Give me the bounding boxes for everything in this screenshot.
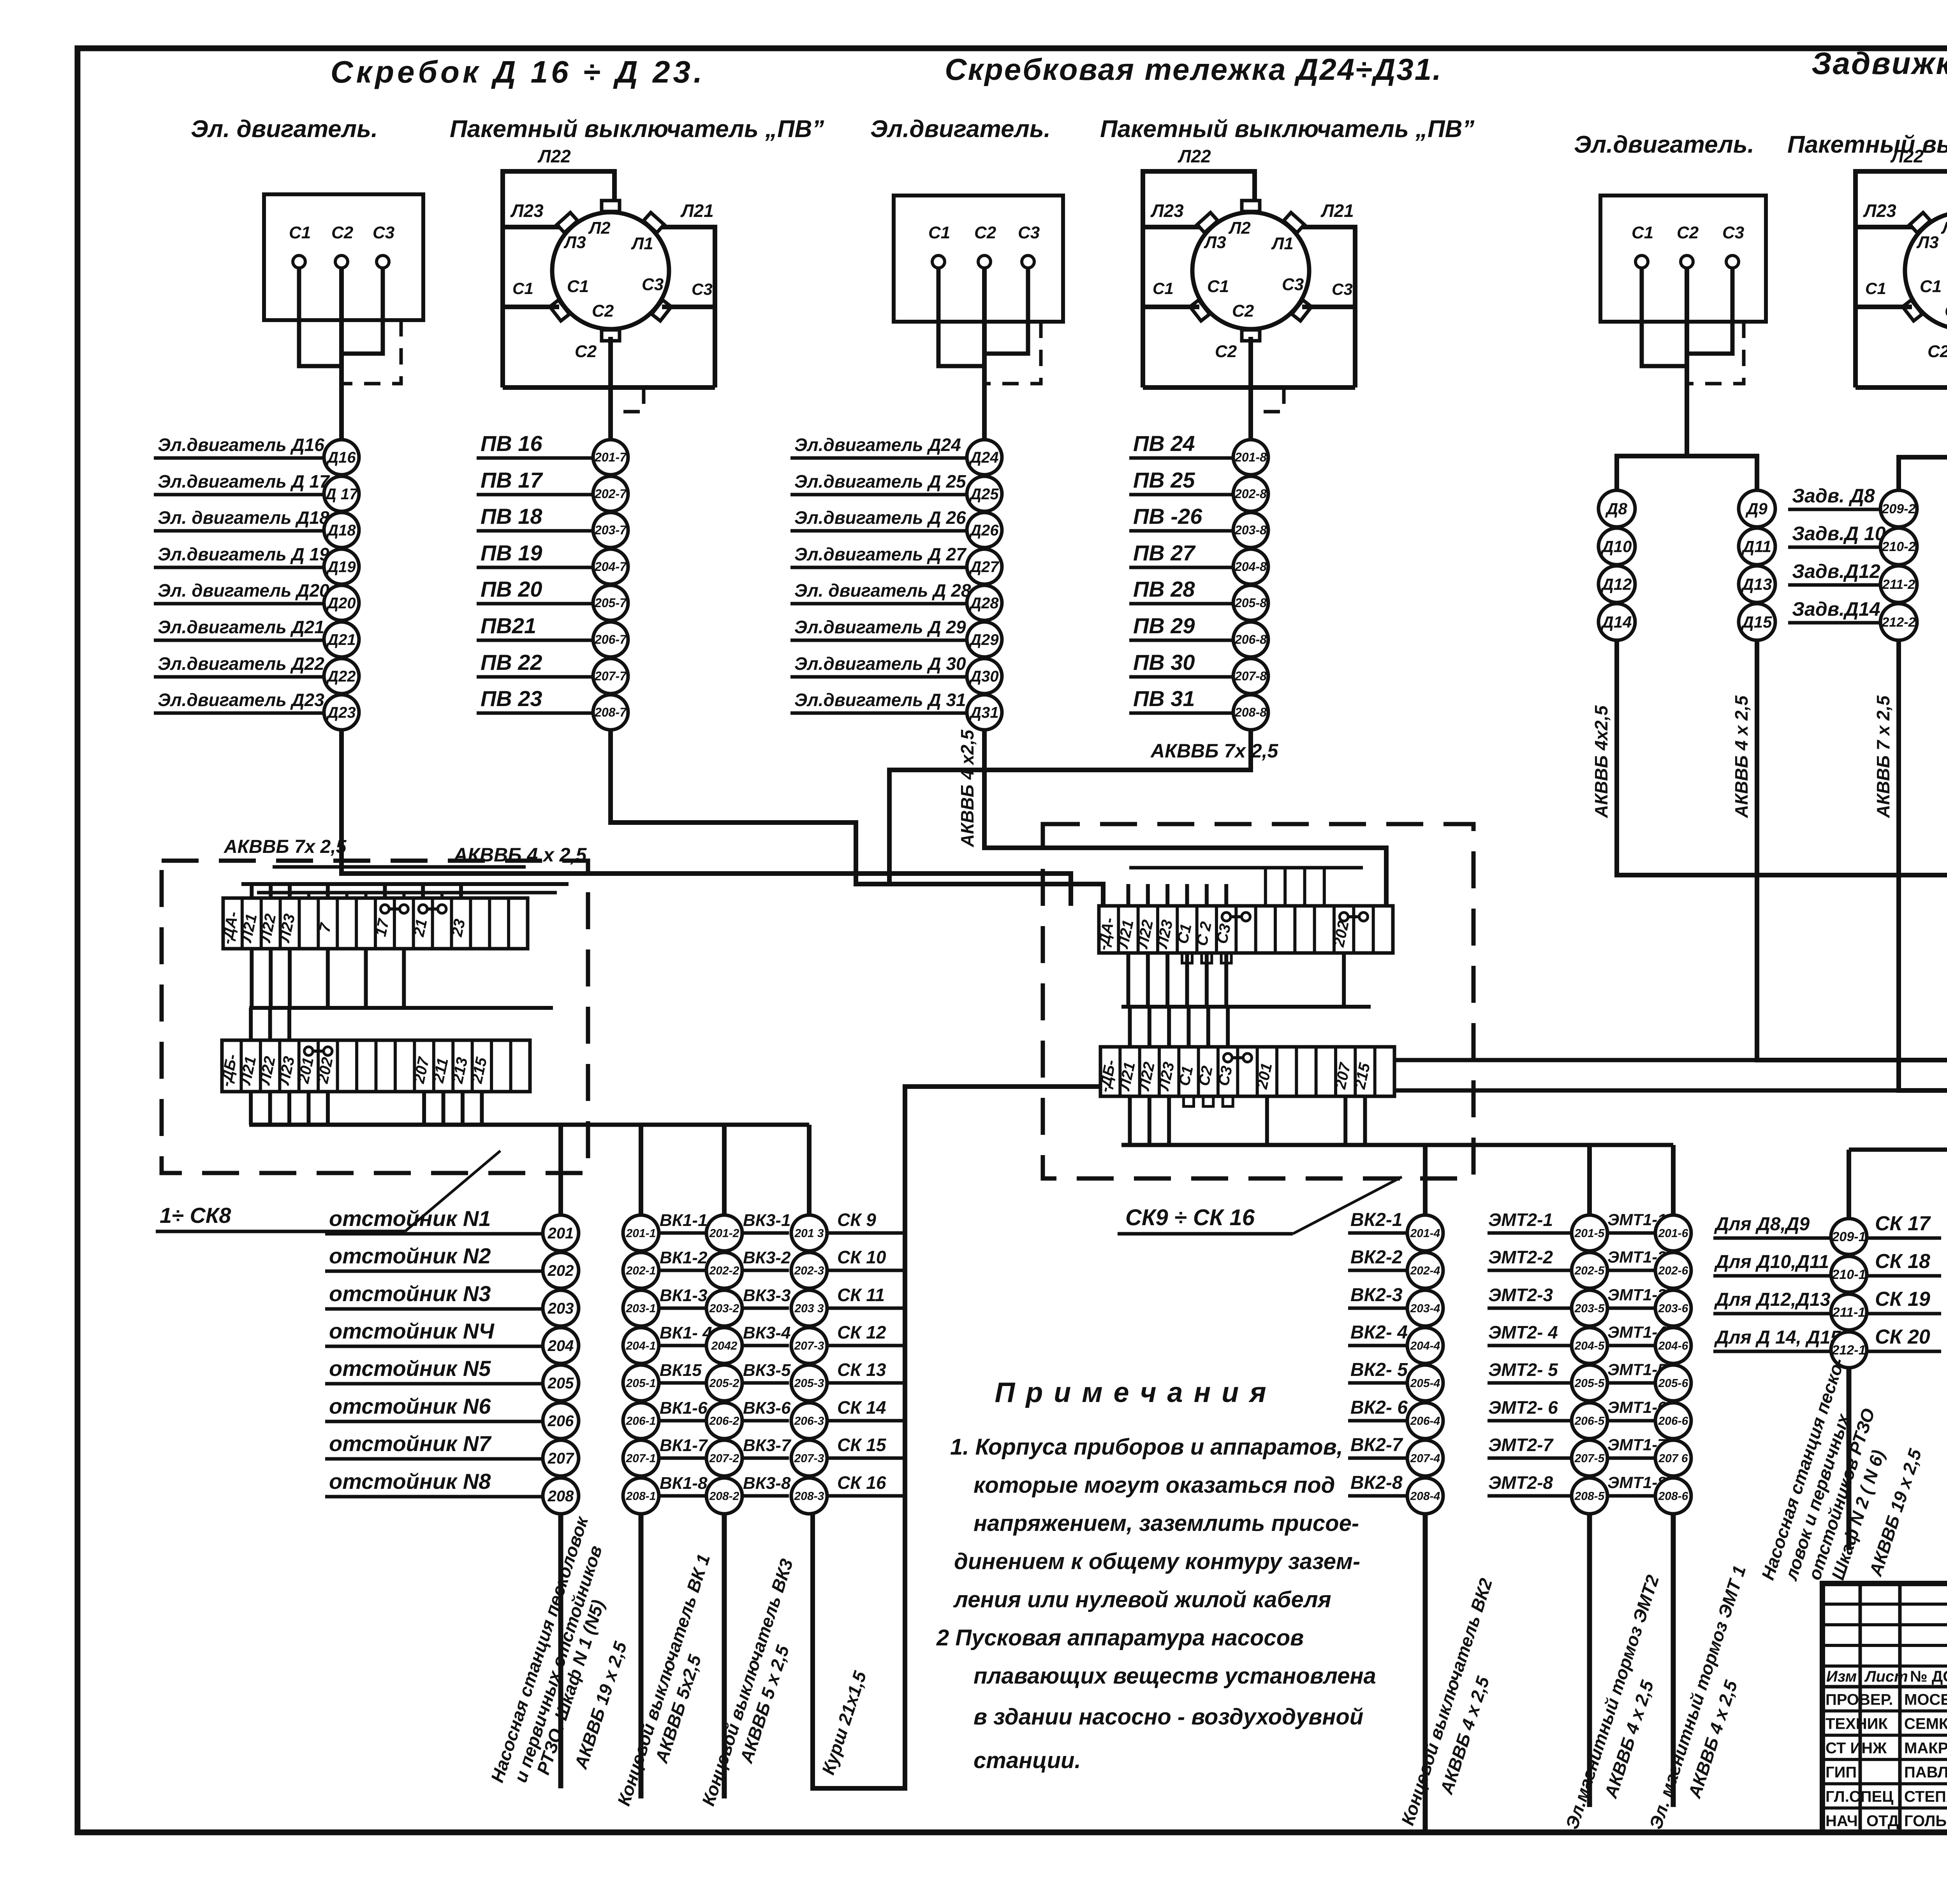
node 206-6 [1655,1403,1691,1439]
wire bundle below center strip ДБ [1121,1143,1673,1147]
node 207-5 [1572,1440,1607,1476]
node 212-2 [1880,604,1917,640]
node 208-3 [791,1478,827,1514]
label ПВ -26 [1129,529,1233,533]
cabinet СК9-СК16 dashed enclosure [1043,824,1473,1178]
label Эл.двигатель Д24 [790,456,966,460]
title block row СТ ИНЖ МАКРУШИНА [1822,1758,1947,1761]
wire cable ЭМТ1 [1671,1514,1676,1807]
svg-text:Л3: Л3 [563,233,586,252]
label ВК3-3 [742,1307,789,1310]
node Д25 [967,476,1002,511]
svg-text:Л23: Л23 [510,201,544,221]
wire stub [268,1092,272,1125]
wire stub [1146,884,1150,906]
node 201-8 [1233,440,1268,475]
svg-text:ГОЛЬЦМАН: ГОЛЬЦМАН [1904,1812,1947,1830]
svg-text:С3: С3 [1282,275,1304,294]
wire C1 to C2 merge [938,268,984,366]
svg-text:Л2: Л2 [1941,218,1947,238]
label 1-СК8 [156,1230,405,1233]
svg-text:Скребковая тележка Д24÷Д31.: Скребковая тележка Д24÷Д31. [945,52,1442,86]
svg-text:которые могут оказаться под: которые могут оказаться под [974,1472,1335,1498]
switch tap Л1 [1284,213,1304,233]
wire stub [1323,868,1326,906]
svg-text:202-6: 202-6 [1658,1265,1688,1277]
node 206-3 [791,1403,827,1439]
svg-text:МОСЕЕНКО: МОСЕЕНКО [1904,1691,1947,1708]
jumper -ДА- центр 6-7 [1222,912,1231,921]
svg-text:Для Д12,Д13: Для Д12,Д13 [1714,1289,1831,1310]
node 206-2 [706,1403,742,1439]
svg-text:Л22: Л22 [537,146,571,166]
wire C1 to C2 merge [1642,268,1687,366]
wire C2 down [982,268,987,440]
svg-text:Д31: Д31 [969,704,998,721]
wire cable ВК1 [639,1514,644,1798]
title block row ГЛ.СПЕЦ СТЕПАНЕНКО [1822,1807,1947,1810]
svg-text:207-1: 207-1 [626,1452,656,1465]
svg-text:ВК2-7: ВК2-7 [1350,1435,1403,1455]
svg-text:208-3: 208-3 [794,1490,824,1503]
wire Л21 [1301,227,1355,387]
svg-text:Д18: Д18 [326,522,356,539]
svg-text:АКВВБ 7 х 2,5: АКВВБ 7 х 2,5 [1873,695,1893,818]
label ВК2-7 [1348,1457,1407,1460]
svg-text:ВК2-1: ВК2-1 [1350,1210,1403,1230]
svg-text:ПВ 31: ПВ 31 [1133,686,1195,711]
svg-text:ВК3-2: ВК3-2 [743,1248,791,1267]
svg-text:201-1: 201-1 [626,1227,656,1240]
node 203-7 [593,513,628,548]
svg-text:207 6: 207 6 [1658,1452,1688,1465]
svg-text:С2: С2 [1945,301,1947,321]
svg-text:ЭМТ2-3: ЭМТ2-3 [1488,1285,1553,1305]
svg-text:201-4: 201-4 [1410,1227,1440,1240]
node 208-8 [1233,695,1268,730]
svg-text:Л2: Л2 [588,218,611,238]
node 206-1 [623,1403,659,1439]
wire stub [402,949,406,1008]
svg-text:С3: С3 [1722,223,1744,242]
terminal strip -ДБ- центр [1100,1047,1394,1096]
svg-text:ЭМТ2-8: ЭМТ2-8 [1488,1472,1553,1493]
label ЭМТ1-4 [1607,1344,1655,1347]
svg-text:201-7: 201-7 [594,450,627,464]
svg-text:№ ДОКУМ.: № ДОКУМ. [1910,1668,1947,1685]
switch tap Л3 [1910,213,1930,233]
svg-text:Д30: Д30 [969,668,998,685]
wire С3 lead [1302,305,1355,309]
svg-text:отстойник N1: отстойник N1 [329,1206,491,1231]
svg-text:Эл.двигатель Д 30: Эл.двигатель Д 30 [794,653,966,674]
motor terminal box [264,194,423,320]
svg-text:211-2: 211-2 [1882,577,1915,592]
svg-text:ЭМТ2-2: ЭМТ2-2 [1488,1247,1553,1267]
svg-text:С3: С3 [692,280,713,298]
svg-text:Пакетный выключатель „ПВ”: Пакетный выключатель „ПВ” [450,116,824,143]
node 203-4 [1407,1290,1443,1326]
label ПВ 27 [1129,566,1233,569]
label ПВ 20 [477,602,593,606]
label ВК2- 6 [1348,1419,1407,1423]
wire stub [1185,953,1189,1007]
svg-text:1. Корпуса приборов и аппара: 1. Корпуса приборов и аппаратов, [950,1434,1343,1460]
svg-text:Задв.Д 10: Задв.Д 10 [1792,523,1886,544]
node 202 [543,1252,579,1288]
node 206-5 [1572,1403,1607,1439]
svg-text:201-5: 201-5 [1574,1227,1605,1240]
label Эл.двигатель Д 29 [790,639,966,642]
label ПВ 22 [477,675,593,679]
package switch ПВ body [1192,212,1309,329]
svg-text:2 Пусковая аппаратура насос: 2 Пусковая аппаратура насосов [936,1625,1304,1650]
terminal strip -ДА- центр [1099,906,1393,953]
svg-text:С2: С2 [1677,223,1699,242]
wire stub [269,884,273,898]
node 208-1 [623,1478,659,1514]
node 208-6 [1655,1478,1691,1514]
wire Л22 frame top [503,171,614,387]
wire link bus y2722 [1394,1058,1757,1062]
wire cable АКВВБ 4х2,5 (Д24-Д31) [984,730,1386,906]
wire stub [1206,1007,1210,1047]
wire stub [345,893,349,898]
wire stub [249,1092,253,1125]
label Эл.двигатель Д23 [154,712,323,715]
label ПВ 25 [1129,493,1233,497]
svg-text:С2: С2 [974,223,996,242]
wire C2 down [339,268,344,440]
svg-text:АКВВБ 7х 2,5: АКВВБ 7х 2,5 [224,837,347,857]
package switch ПВ body [1905,212,1947,329]
switch tap С1 [550,300,569,321]
svg-text:Л23: Л23 [1863,201,1896,221]
svg-text:21: 21 [410,918,430,939]
svg-text:201: 201 [547,1225,574,1242]
wire Л22 frame top [1143,171,1255,387]
svg-text:201-6: 201-6 [1658,1227,1688,1240]
wire stub [1265,1096,1269,1145]
node 204-8 [1233,549,1268,584]
jumper -ДБ- центр 6-7 [1223,1053,1232,1062]
svg-text:С2: С2 [1232,301,1254,321]
label ВК1-8 [659,1494,706,1498]
label ПВ 17 [477,493,593,497]
wire stub [1283,868,1287,906]
wire cable АКВВБ 7х2,5 (ПВ24-31) [889,730,1251,884]
label ЭМТ2- 6 [1488,1419,1572,1423]
wire cable АКВВБ 7х2,5 (ПВ16-23) [611,730,1103,906]
svg-text:201-2: 201-2 [709,1227,739,1240]
svg-text:210-2: 210-2 [1882,539,1916,554]
node 212-1 [1831,1332,1867,1368]
title block row ПРОВЕР. МОСЕЕНКО [1822,1709,1947,1712]
svg-text:СК 9: СК 9 [837,1210,876,1230]
svg-text:Для Д10,Д11: Для Д10,Д11 [1714,1252,1829,1272]
svg-text:НАЧ. ОТД: НАЧ. ОТД [1826,1812,1899,1830]
wire cable ВК2 [1423,1514,1428,1830]
svg-text:23: 23 [448,918,468,939]
svg-text:206-3: 206-3 [794,1415,824,1428]
node 202-4 [1407,1252,1443,1288]
label Эл. двигатель Д 28 [790,602,966,606]
wire stub [1128,1096,1132,1145]
wire stub [1146,953,1150,1007]
label ВК1- 4 [659,1344,706,1347]
node 202-1 [623,1252,659,1288]
node 207-3 [791,1328,827,1363]
svg-text:Л21: Л21 [680,201,714,221]
wire С2 down [1248,337,1253,440]
wire stub [1165,953,1169,1007]
node 201 3 [791,1215,827,1251]
wire bundle below strip ДБ [249,1123,809,1127]
node Д14 [1598,604,1635,640]
node 211-2 [1880,566,1917,602]
svg-text:отстойник N7: отстойник N7 [329,1431,492,1456]
wire С1 lead [503,305,559,309]
svg-text:Эл.двигатель Д 19: Эл.двигатель Д 19 [158,544,329,564]
node 201-5 [1572,1215,1607,1251]
node Д13 [1739,566,1775,602]
label Эл.двигатель Д 31 [790,712,966,715]
jumper -ДА- 8-9 [380,905,389,913]
label ВК2-2 [1348,1269,1407,1272]
label Эл.двигатель Д 27 [790,566,966,569]
leader 1-СК8 [405,1151,500,1231]
svg-text:С3: С3 [1332,280,1353,298]
svg-text:204-4: 204-4 [1410,1340,1440,1353]
svg-text:ВК1-6: ВК1-6 [660,1398,708,1418]
svg-text:С2: С2 [1215,342,1237,361]
label Эл.двигатель Д 30 [790,675,966,679]
label ВК3-7 [742,1457,789,1460]
svg-text:208-6: 208-6 [1658,1490,1688,1503]
svg-text:АКВВБ 4 х2,5: АКВВБ 4 х2,5 [957,729,977,847]
dashed neutral wire [1689,322,1744,384]
svg-text:206: 206 [547,1413,574,1430]
svg-text:ВК2- 4: ВК2- 4 [1350,1322,1408,1343]
svg-text:Задвижки на осадке Д8÷Д15.: Задвижки на осадке Д8÷Д15. [1811,46,1947,81]
wire Л23 [503,225,560,229]
wire stub [249,1008,253,1040]
wire stub [1205,884,1209,906]
node 207 [543,1440,579,1476]
svg-text:Эл. двигатель Д18: Эл. двигатель Д18 [158,507,329,528]
wire stub [1363,1096,1367,1145]
node Д9 [1739,490,1775,527]
svg-text:202-5: 202-5 [1574,1265,1605,1277]
node Д27 [967,549,1002,584]
wire cable АКВВБ 4х2,5 (Д9-Д15) [1757,640,1947,1060]
node 205 [543,1365,579,1401]
label ПВ 23 [477,712,593,715]
svg-text:ПВ21: ПВ21 [481,613,536,638]
switch tap С2 [602,330,620,341]
svg-text:ПВ 28: ПВ 28 [1133,577,1195,601]
svg-text:Эл.двигатель Д23: Эл.двигатель Д23 [158,690,324,710]
svg-text:Д19: Д19 [326,558,356,576]
svg-text:ПВ 29: ПВ 29 [1133,613,1195,638]
label ВК1-6 [659,1419,706,1423]
label ПВ 28 [1129,602,1233,606]
label Эл. двигатель Д20 [154,602,323,606]
svg-text:СК 10: СК 10 [837,1247,886,1267]
node 208 [543,1478,579,1514]
svg-text:СК 17: СК 17 [1875,1212,1931,1235]
switch tap Л3 [557,213,577,233]
svg-text:207: 207 [547,1450,574,1467]
node 206 [543,1403,579,1439]
wire stub [1128,1007,1132,1047]
svg-text:202: 202 [547,1262,574,1279]
svg-text:ЭМТ2- 5: ЭМТ2- 5 [1488,1360,1558,1380]
svg-text:Скребок Д 16 ÷ Д 23.: Скребок Д 16 ÷ Д 23. [331,55,705,89]
label ВК1-2 [659,1269,706,1272]
svg-text:АКВВБ 7х 2,5: АКВВБ 7х 2,5 [1150,740,1279,762]
label СК 14 [827,1419,907,1423]
wire stub [402,893,405,898]
cabinet 1-СК8 dashed enclosure [162,861,588,1173]
svg-text:С2: С2 [331,223,354,242]
node 207-8 [1233,659,1268,694]
svg-text:205-8: 205-8 [1234,596,1267,610]
node Д26 [967,513,1002,548]
label СК 15 [827,1457,907,1460]
wire Л23 [1143,225,1200,229]
svg-text:ВК3-6: ВК3-6 [743,1398,791,1418]
svg-text:204-1: 204-1 [626,1340,656,1353]
svg-text:Л3: Л3 [1204,233,1226,252]
leader СК9-СК16 [1293,1177,1402,1234]
svg-text:Д22: Д22 [326,668,356,685]
switch tap Л2 [1242,201,1260,211]
wire drop to СК chain [807,1125,812,1215]
wire Л21 [661,227,715,387]
svg-text:206-5: 206-5 [1574,1415,1605,1428]
node 206-4 [1407,1403,1443,1439]
svg-text:ПВ -26: ПВ -26 [1133,504,1202,528]
svg-text:СТ ИНЖ: СТ ИНЖ [1826,1740,1887,1757]
svg-text:ПВ 19: ПВ 19 [481,541,542,565]
svg-text:203-6: 203-6 [1658,1302,1688,1315]
wire cable АКВВБ 4х2,5 (Д16-Д23) [342,730,1071,906]
wire stub [364,893,368,898]
switch tap С1 [1903,300,1922,321]
wire stub [326,884,330,898]
node 202-2 [706,1252,742,1288]
node 201-6 [1655,1215,1691,1251]
svg-text:ВК3-1: ВК3-1 [743,1211,790,1230]
svg-text:С2: С2 [575,342,597,361]
node Д29 [967,622,1002,657]
label ВК2-3 [1348,1307,1407,1310]
wire cable ВК3 [722,1514,727,1798]
wire stub [480,1092,484,1125]
svg-text:203-1: 203-1 [626,1302,656,1315]
label ВК3-2 [742,1269,789,1272]
label ЭМТ1-1 [1607,1231,1655,1235]
terminal strip -ДА- [223,898,528,949]
label Эл. двигатель Д18 [154,529,323,533]
svg-text:208-8: 208-8 [1234,705,1267,719]
label ЭМТ2-7 [1488,1457,1572,1460]
dashed neutral wire [614,387,644,412]
svg-text:205-1: 205-1 [626,1377,656,1390]
svg-text:С3: С3 [642,275,664,294]
node 207-7 [593,659,628,694]
svg-text:205-7: 205-7 [594,596,627,610]
wire stub [268,1008,272,1040]
wire stub [364,949,368,1008]
svg-text:ПВ 18: ПВ 18 [481,504,542,528]
wire C2 down [1685,268,1689,389]
node 204-6 [1655,1328,1691,1363]
svg-text:205: 205 [547,1375,574,1392]
svg-text:Для Д 14, Д15: Для Д 14, Д15 [1714,1327,1841,1348]
switch tap С3 [652,300,671,321]
label Задв.Д12 [1788,583,1880,587]
node Д24 [967,440,1002,475]
svg-text:Д25: Д25 [969,486,999,503]
svg-text:Эл.двигатель Д 26: Эл.двигатель Д 26 [794,507,966,528]
label ПВ21 [477,639,593,642]
node 211-1 [1831,1294,1867,1330]
switch tap С3 [1292,300,1311,321]
label Эл.двигатель Д22 [154,675,323,679]
wire cable АКВВБ 4х2,5 (Д8-Д14) [1617,640,1947,911]
label ПВ 16 [477,456,593,460]
svg-text:206-6: 206-6 [1658,1415,1688,1428]
svg-text:207-2: 207-2 [709,1452,739,1465]
dashed neutral wire [987,322,1041,384]
svg-text:Л2: Л2 [1228,218,1251,238]
label ВК2- 5 [1348,1381,1407,1385]
svg-text:Д20: Д20 [326,595,356,612]
svg-text:отстойник N8: отстойник N8 [329,1469,491,1494]
svg-text:202-2: 202-2 [709,1265,739,1277]
node Д10 [1598,528,1635,565]
svg-text:плавающих веществ установлен: плавающих веществ установлена [974,1663,1376,1689]
wire cable ЭМТ2 [1587,1514,1592,1807]
svg-text:ПВ 30: ПВ 30 [1133,650,1195,675]
wire Л23 [1855,225,1913,229]
label отстойник N1 [325,1232,543,1236]
switch tap С2 [1242,330,1260,341]
label СК 19 [1867,1312,1941,1316]
label ВК2-8 [1348,1494,1407,1498]
svg-text:208-5: 208-5 [1574,1490,1605,1503]
label ВК3-4 [742,1344,789,1347]
svg-text:1÷ СК8: 1÷ СК8 [160,1203,231,1228]
svg-text:ВК1-1: ВК1-1 [660,1211,707,1230]
wire stub [1224,953,1228,1007]
label ПВ 18 [477,529,593,533]
svg-text:Л22: Л22 [1178,146,1211,166]
wire СК9-16 cable loop [813,1087,1100,1788]
label ПВ 30 [1129,675,1233,679]
node 205-1 [623,1365,659,1401]
svg-text:212-2: 212-2 [1882,615,1916,630]
label ЭМТ2- 5 [1488,1381,1572,1385]
wire С2 down [608,337,613,440]
node 201-4 [1407,1215,1443,1251]
svg-text:Л1: Л1 [631,234,653,253]
svg-text:Эл.двигатель Д 25: Эл.двигатель Д 25 [794,471,966,491]
svg-text:Эл.двигатель Д24: Эл.двигатель Д24 [794,435,961,455]
svg-text:203 3: 203 3 [794,1302,824,1315]
